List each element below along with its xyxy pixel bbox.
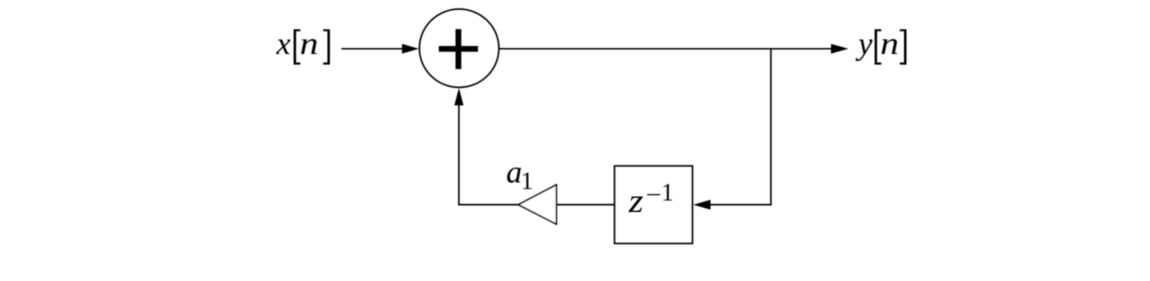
svg-text:n: n bbox=[880, 26, 899, 61]
svg-text:n: n bbox=[300, 26, 319, 61]
svg-text:z: z bbox=[628, 182, 644, 220]
svg-text:1: 1 bbox=[661, 179, 674, 206]
svg-text:1: 1 bbox=[521, 168, 534, 195]
svg-text:x: x bbox=[275, 25, 290, 61]
svg-text:−: − bbox=[646, 181, 662, 209]
svg-text:a: a bbox=[506, 154, 522, 190]
svg-text:y: y bbox=[855, 25, 873, 61]
